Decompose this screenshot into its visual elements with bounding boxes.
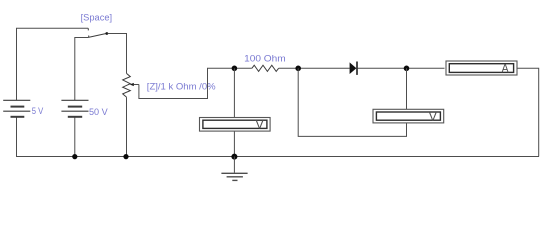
ammeter U3 — [446, 61, 517, 75]
svg-text:A: A — [502, 61, 509, 75]
wire voltmeter U1 bottom branch — [233, 132, 235, 157]
svg-text:V: V — [429, 109, 437, 123]
battery V1 5V — [3, 100, 30, 117]
svg-text:5 V: 5 V — [32, 106, 44, 116]
svg-text:[Space]: [Space] — [81, 13, 113, 23]
junction node potentiometer at bottom rail — [123, 154, 128, 159]
wire 50V battery top to switch bottom throw — [75, 38, 89, 101]
wire diode-anode node down to bottom of voltmeter U2 loop — [298, 68, 406, 136]
wire bottom rail — [16, 156, 539, 158]
junction node between resistor and diode — [295, 66, 301, 72]
junction node between wiper rail and voltmeter U1 — [232, 66, 238, 72]
potentiometer wiper arrow — [130, 83, 139, 86]
wire 50V battery bottom to bottom rail — [74, 117, 76, 157]
voltmeter U2 — [373, 109, 444, 123]
voltmeter U1 — [200, 118, 271, 132]
battery V2 50V — [61, 100, 88, 117]
diode D1 — [350, 62, 357, 75]
wire top rail from left corner to switch top throw — [17, 28, 89, 100]
svg-text:50 V: 50 V — [89, 107, 108, 117]
potentiometer R1 1k zigzag — [123, 73, 131, 97]
wire 5V battery bottom to bottom rail — [16, 117, 18, 157]
ground — [221, 157, 247, 181]
wire ammeter right to bottom rail — [518, 68, 539, 156]
junction node diode cathode — [404, 66, 410, 72]
svg-text:100 Ohm: 100 Ohm — [244, 53, 286, 63]
wire potentiometer bottom to bottom rail — [126, 97, 128, 156]
wire diode cathode to ammeter — [358, 67, 445, 69]
wire switch pole to potentiometer top — [108, 34, 127, 74]
resistor R2 100 Ohm zigzag — [252, 65, 279, 71]
wire voltmeter U1 top branch — [233, 68, 235, 117]
junction node 50V battery at bottom rail — [72, 154, 77, 159]
svg-text:V: V — [256, 118, 264, 132]
wire resistor right to diode anode — [279, 67, 350, 69]
junction node ground at bottom rail — [231, 154, 237, 160]
switch S1 [Space] — [88, 28, 108, 37]
wire voltmeter U2 top branch — [406, 68, 408, 109]
wire wiper to top rail — [139, 68, 252, 98]
svg-text:[Z]/1 k Ohm /0%: [Z]/1 k Ohm /0% — [147, 82, 216, 92]
